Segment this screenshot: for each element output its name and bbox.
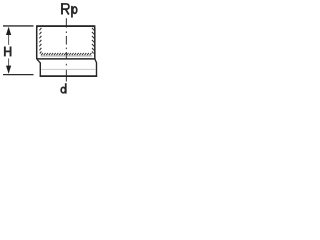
dimension H top arrowhead <box>6 27 11 35</box>
dimension H line upper segment <box>8 28 10 45</box>
dimension H top extension line <box>3 25 34 27</box>
body top rim line <box>36 25 95 27</box>
label Rp (top thread designation) <box>61 3 77 18</box>
body lower section right wall <box>96 62 98 76</box>
body shoulder line <box>36 58 95 60</box>
body left chamfer to lower section <box>37 59 40 63</box>
thread hatch bottom row <box>41 53 91 55</box>
label H <box>5 47 11 57</box>
body right chamfer to lower section <box>95 59 97 63</box>
dimension H line lower segment <box>8 59 10 73</box>
centerline (vertical dash-dot axis) <box>65 18 67 81</box>
body upper socket outline (top rim, side walls, shoulder) <box>37 26 95 59</box>
body bottom edge <box>40 75 98 77</box>
thread root line inner bottom <box>41 55 93 57</box>
dimension H bottom extension line <box>3 74 34 76</box>
thread hatch left column <box>39 28 41 54</box>
body lower section highlight groove <box>41 68 96 70</box>
label d (bottom diameter) <box>61 83 66 93</box>
dimension H bottom arrowhead <box>6 66 11 74</box>
body lower section left wall <box>39 62 41 76</box>
thread hatch right column <box>92 28 94 54</box>
